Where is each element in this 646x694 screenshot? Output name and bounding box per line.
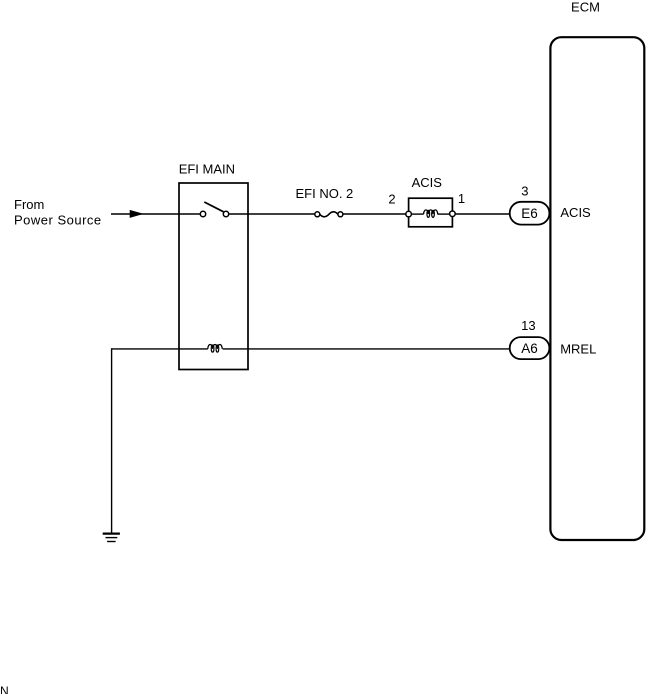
ACIS valve box bbox=[409, 198, 453, 227]
label ACIS component bbox=[412, 175, 443, 190]
wire inside ACIS right bbox=[437, 213, 449, 215]
ECM block U1 bbox=[550, 37, 644, 540]
svg-text:MREL: MREL bbox=[560, 341, 596, 356]
wire ground vertical bbox=[111, 348, 113, 532]
label EFI MAIN bbox=[179, 162, 235, 177]
wire from power source to EFI MAIN switch bbox=[111, 213, 200, 215]
pin 2 of ACIS bbox=[388, 192, 411, 217]
connector A6 pin 13 bbox=[510, 318, 550, 359]
relay EFI MAIN box bbox=[179, 183, 248, 370]
svg-text:A6: A6 bbox=[521, 341, 538, 356]
fuse EFI NO. 2 bbox=[315, 212, 343, 217]
svg-text:EFI MAIN: EFI MAIN bbox=[179, 162, 235, 177]
svg-text:EFI NO. 2: EFI NO. 2 bbox=[296, 186, 354, 201]
wire MREL horizontal bbox=[112, 348, 208, 350]
label ACIS net bbox=[560, 205, 591, 220]
svg-text:N: N bbox=[0, 684, 9, 694]
coil ACIS solenoid bbox=[424, 210, 438, 217]
wire fuse to ACIS bbox=[343, 213, 406, 215]
svg-text:3: 3 bbox=[521, 183, 528, 198]
svg-text:13: 13 bbox=[521, 318, 535, 333]
wire relay coil to ECM connector A6 bbox=[223, 348, 510, 350]
coil EFI MAIN relay bbox=[208, 344, 222, 352]
relay switch contact bbox=[200, 202, 228, 217]
svg-text:Power Source: Power Source bbox=[14, 212, 102, 227]
wire ACIS to ECM connector E6 bbox=[455, 213, 510, 215]
svg-text:E6: E6 bbox=[521, 206, 538, 221]
label MREL net bbox=[560, 341, 596, 356]
wire switch to fuse bbox=[229, 213, 315, 215]
svg-text:ACIS: ACIS bbox=[560, 205, 591, 220]
svg-text:ACIS: ACIS bbox=[412, 175, 443, 190]
page footnote letter N bbox=[0, 684, 9, 694]
pin 1 of ACIS bbox=[450, 191, 466, 217]
label From Power Source bbox=[14, 197, 102, 227]
label ECM bbox=[571, 0, 600, 14]
svg-text:From: From bbox=[14, 197, 44, 212]
ground bbox=[103, 534, 120, 542]
arrow power feed bbox=[130, 210, 144, 218]
label EFI NO. 2 bbox=[296, 186, 354, 201]
connector E6 pin 3 bbox=[510, 183, 550, 224]
svg-text:ECM: ECM bbox=[571, 0, 600, 14]
svg-text:1: 1 bbox=[458, 191, 465, 206]
svg-text:2: 2 bbox=[388, 192, 395, 207]
wire inside ACIS left bbox=[411, 213, 423, 215]
